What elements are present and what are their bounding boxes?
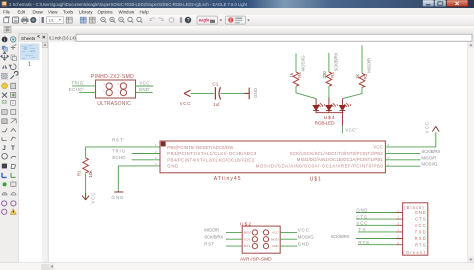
svg-text:VCC: VCC (373, 145, 383, 150)
svg-text:Options: Options (98, 9, 114, 14)
svg-text:MOSI/DI/SDA/AIN0/OC0A/-OC1A/AR: MOSI/DI/SDA/AIN0/OC0A/-OC1A/AREF/PCINT0/… (256, 164, 384, 169)
row16: bus / net (2, 173, 7, 178)
wire VCC to FTDI (356, 224, 396, 226)
svg-text:1k: 1k (289, 72, 294, 77)
thumb grid gray (89, 17, 95, 23)
supply VCC down arrow (82, 193, 89, 200)
led U$4 emission arrows (318, 103, 351, 107)
wire ISP VCC right (280, 231, 297, 233)
wire VCC pin8 up to arrow (385, 132, 435, 147)
menu bar (0, 8, 474, 15)
row11: miter / split (2, 128, 7, 132)
wire R2 to LED pin (342, 87, 362, 98)
svg-text:MISO/R: MISO/R (204, 228, 219, 233)
parameter row: sheets tab + coords + command input (0, 33, 474, 41)
svg-text:GND: GND (111, 195, 123, 200)
svg-text:SCK/USCK/SCL/ADC1/T0/INT0/PCIN: SCK/USCK/SCL/ADC1/T0/INT0/PCINT2/PB2 (290, 151, 384, 156)
toolbar row 1 (0, 15, 474, 26)
svg-text:10k: 10k (88, 170, 93, 178)
connector U$2 pin pads (252, 230, 268, 249)
svg-text:Tools: Tools (63, 9, 74, 14)
svg-text:SCK: SCK (244, 237, 251, 241)
wire R3 to LED pin (328, 86, 330, 97)
svg-text:i: i (4, 37, 5, 42)
wire R1 to VCC (85, 173, 87, 193)
svg-text:Sheets: Sheets (21, 36, 36, 41)
svg-text:R3: R3 (330, 72, 335, 78)
sheet thumbnail (20, 43, 40, 60)
svg-text:1/1: 1/1 (48, 18, 54, 23)
row10: value / smash (2, 119, 7, 124)
svg-text:TXD: TXD (415, 230, 426, 235)
connector J1 ULTRASONIC body (96, 80, 136, 98)
wire GND pin4 (118, 166, 160, 191)
wire SCK net pin7 (385, 152, 420, 154)
wire net ECHO to header (79, 92, 96, 94)
svg-text:PB4/PCINT4/XTAL2/CLKO/OC1B/ADC: PB4/PCINT4/XTAL2/CLKO/OC1B/ADC2 (167, 157, 255, 162)
wire TX to FTDI (358, 231, 396, 233)
svg-text:ATtiny45: ATtiny45 (214, 176, 241, 182)
row9: gateswap / name (2, 110, 7, 115)
svg-text:1k: 1k (355, 73, 360, 78)
row17: junction / label (3, 182, 7, 186)
resistor R4 zigzag (293, 72, 299, 86)
help (185, 17, 191, 23)
ic U$1 left pin numbers (155, 143, 157, 166)
svg-text:RGB-LED: RGB-LED (315, 120, 336, 126)
connector FTDI body (403, 203, 428, 255)
svg-text:U$4: U$4 (324, 115, 335, 121)
wire net TRIG to header (72, 85, 96, 87)
row8: pinswap / replace (2, 100, 7, 103)
wire RX to FTDI (356, 238, 396, 240)
supply VCC arrow left of C1 (184, 90, 191, 96)
svg-text:VCC: VCC (272, 231, 279, 235)
svg-text:MOSI: MOSI (271, 237, 279, 241)
led U$4 blue element (339, 99, 345, 113)
row20: erc warning (2, 209, 7, 214)
left command toolbar (0, 42, 18, 263)
separator (39, 17, 41, 24)
svg-text:ECHO': ECHO' (69, 87, 84, 92)
resistor R4 top wire (295, 54, 297, 72)
row6: cut / paste (2, 83, 8, 89)
svg-text:View: View (48, 9, 58, 14)
svg-text:VCC: VCC (356, 221, 367, 226)
wire ISP MOSI right (280, 238, 297, 240)
wire net VCC from header (136, 85, 154, 87)
svg-text:1: 1 (28, 62, 31, 68)
svg-text:RST: RST (204, 241, 214, 246)
connector J1 pin numbers (103, 82, 119, 93)
svg-text:R2: R2 (363, 73, 368, 79)
wire MISO to ISP (226, 231, 242, 233)
table icons (66, 17, 72, 23)
svg-text:VCC': VCC' (139, 81, 150, 86)
row15: rect / polygon (2, 164, 7, 169)
svg-text:0.1 inch (3.6 1.4): 0.1 inch (3.6 1.4) (49, 36, 76, 41)
stop (169, 17, 175, 23)
led U$4 common anode bar (316, 113, 344, 126)
wire C1 to GND (221, 92, 245, 94)
svg-text:PB3/PCINT3/XTAL1/CLKI/-OC1B/AD: PB3/PCINT3/XTAL1/CLKI/-OC1B/ADC3 (167, 151, 257, 156)
svg-text:MOSI/G: MOSI/G (298, 234, 315, 239)
svg-text:TRIG': TRIG' (71, 81, 84, 86)
row19: dimension / errors (2, 201, 7, 206)
row5: group / change (2, 73, 8, 79)
svg-text:Library: Library (79, 9, 93, 14)
svg-text:RTS: RTS (358, 240, 369, 245)
connector U$2 AVR ISP body (242, 226, 280, 253)
svg-text:?: ? (187, 18, 190, 24)
svg-text:GND: GND (272, 244, 279, 248)
svg-text:VCC: VCC (91, 193, 96, 204)
wire RTS to FTDI (358, 244, 396, 246)
svg-text:T: T (11, 145, 15, 152)
led U$4 green element (326, 98, 332, 113)
svg-text:VCC: VCC (298, 228, 309, 233)
ic U$1 right pin names (256, 145, 384, 169)
ground symbol right of C1 (244, 88, 249, 100)
row2: display / mark (2, 46, 6, 50)
thumb grid blue (80, 17, 86, 23)
svg-text:PB5/PCINT5/-RESET/ADC0/DW: PB5/PCINT5/-RESET/ADC0/DW (167, 145, 234, 150)
svg-text:MISO: MISO (244, 231, 252, 235)
row7: delete / add (2, 93, 7, 98)
svg-text:SCK/B/RX: SCK/B/RX (334, 52, 339, 71)
svg-text:SCK/B/RX: SCK/B/RX (421, 149, 440, 154)
row14: circle / arc (2, 153, 8, 159)
wire CTS to FTDI (356, 218, 396, 220)
run (180, 17, 182, 23)
svg-text:C1: C1 (212, 81, 218, 86)
svg-text:ECHO: ECHO (112, 155, 126, 160)
svg-text:1uf: 1uf (213, 102, 220, 107)
svg-text:GND: GND (167, 164, 178, 169)
wire ISP GND right (280, 245, 297, 247)
wire VCC arrow to C1 (191, 92, 215, 94)
resistor R3 zigzag (326, 72, 332, 86)
svg-text:VCC: VCC (415, 223, 426, 228)
svg-text:U$1: U$1 (310, 176, 321, 182)
svg-text:GND': GND' (139, 87, 150, 92)
row1: info / show (2, 37, 8, 43)
svg-text:File: File (3, 9, 11, 14)
svg-text:SCK/B/RX: SCK/B/RX (331, 234, 350, 239)
svg-text:eagle: eagle (199, 18, 210, 23)
ic U$1 right pin numbers (388, 143, 390, 166)
wire SCK to ISP (226, 238, 242, 240)
svg-text:2 Schematic - C:\Users\gough\D: 2 Schematic - C:\Users\gough\Documents\e… (9, 2, 248, 7)
svg-text:GND: GND (356, 208, 367, 213)
svg-text:220: 220 (322, 71, 327, 79)
resistor R2 top wire (361, 45, 363, 73)
connector FTDI inner labels (404, 205, 424, 210)
svg-text:GND: GND (415, 210, 426, 215)
resistor R3 top wire (328, 53, 330, 72)
resistor R1 zigzag (83, 158, 89, 173)
small i icon (42, 17, 44, 23)
connector J1 pin pads (106, 83, 126, 96)
svg-text:MOSI/G: MOSI/G (421, 162, 438, 167)
svg-text:CTS: CTS (415, 217, 426, 222)
wire MISO net pin6 (385, 159, 420, 161)
svg-text:R4: R4 (297, 72, 302, 78)
svg-text:MISO/R: MISO/R (421, 155, 436, 160)
ic U$1 left pin names (167, 145, 257, 169)
connector U$2 inner pin names (244, 231, 252, 249)
five zoom tools (101, 17, 143, 23)
svg-text:MISO/DO/AIN1/OC1B/OC1A/PCINT1/: MISO/DO/AIN1/OC1B/OC1A/PCINT1/PB1 (297, 157, 384, 162)
svg-text:Draw: Draw (33, 9, 44, 14)
row18: attribute pair (2, 192, 7, 195)
svg-text:RST: RST (244, 244, 251, 248)
sheets panel (19, 42, 42, 263)
svg-text:AVR-ISP-SMD: AVR-ISP-SMD (240, 256, 272, 262)
print (22, 19, 29, 22)
svg-text:ULTRASONIC: ULTRASONIC (97, 101, 131, 107)
wire LED common to VCC (341, 126, 343, 133)
image/export (30, 17, 36, 23)
ic U$1 ATtiny45 body (160, 141, 385, 173)
wire MOSI net pin5 (385, 165, 420, 167)
ground symbol below attiny (114, 191, 123, 192)
svg-text:VCC'': VCC'' (345, 128, 357, 133)
design link button 2 (226, 16, 246, 24)
svg-text:TRIG: TRIG (112, 148, 126, 153)
svg-text:SCK/B/RX: SCK/B/RX (204, 234, 223, 239)
wire TRIG to pin2 (132, 153, 160, 155)
bottom horizontal scrollbar strip (0, 263, 474, 270)
wire ECHO to pin3 (132, 159, 160, 161)
resistor R2 zigzag (359, 73, 365, 87)
toolbar row 2 (0, 26, 474, 34)
svg-text:J: J (2, 145, 6, 152)
svg-text:CTS: CTS (356, 214, 367, 219)
connector FTDI pin stubs (396, 213, 403, 245)
wire net GND from header (136, 92, 153, 94)
ic U$1 corner mark (161, 142, 166, 147)
svg-text:VCC: VCC (180, 101, 192, 106)
svg-text:MOSI/G: MOSI/G (301, 55, 306, 72)
undo/redo (150, 18, 155, 21)
sheet combo (47, 17, 64, 24)
supply VCC up arrow right (432, 126, 439, 131)
svg-text:RTS: RTS (415, 242, 426, 247)
led U$4 red element (313, 99, 319, 113)
svg-text:RST': RST' (112, 137, 124, 142)
row12: invoke / wire (2, 137, 7, 140)
connector FTDI pin numbers (398, 210, 400, 245)
svg-text:R1: R1 (77, 170, 82, 176)
svg-text:PINHD-2X2-SMD: PINHD-2X2-SMD (91, 74, 134, 80)
right vertical scrollbar (468, 42, 474, 263)
svg-text:RXD: RXD (415, 236, 426, 241)
grid button (4, 26, 11, 32)
save (13, 17, 19, 23)
wire R4 to LED pin (296, 86, 316, 99)
svg-text:Help: Help (140, 9, 150, 14)
svg-text:GND: GND (253, 88, 258, 98)
wire RST to ISP (226, 245, 242, 247)
design link button 1 (197, 16, 218, 24)
wire GND to FTDI (356, 212, 396, 214)
open (4, 17, 10, 23)
svg-text:TX: TX (358, 227, 365, 232)
svg-text:(Green): (Green) (403, 250, 425, 255)
svg-text:Window: Window (119, 9, 135, 14)
svg-text:Edit: Edit (18, 9, 26, 14)
svg-text:VCC: VCC (424, 122, 429, 133)
wire RST net pin1 to R1 (86, 147, 160, 158)
svg-text:MISO/R: MISO/R (367, 58, 372, 73)
row4: mirror / rotate (2, 65, 8, 69)
svg-text:GND: GND (298, 241, 309, 246)
capacitor C1 plates (214, 87, 216, 99)
canvas (49, 42, 468, 263)
row3: move / copy (0, 52, 8, 60)
